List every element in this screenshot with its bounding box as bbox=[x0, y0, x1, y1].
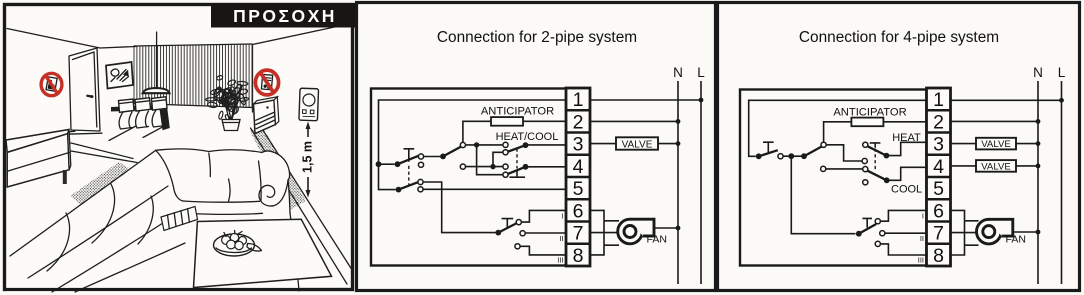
wall heater unit bbox=[254, 97, 279, 134]
HEAT/COOL upper pivot bbox=[523, 142, 529, 148]
wire resistor to terminal 2 bbox=[523, 120, 566, 122]
wire fan to N bbox=[654, 226, 680, 231]
svg-text:5: 5 bbox=[573, 178, 584, 200]
thermostat switch S1 lower lever bbox=[399, 182, 419, 189]
wire terminal 6 to fan bbox=[590, 210, 619, 220]
net N line bbox=[677, 81, 679, 284]
svg-text:I: I bbox=[561, 212, 563, 221]
potted plant bbox=[206, 75, 249, 131]
label L bbox=[1058, 65, 1066, 80]
coffee table bbox=[194, 219, 332, 287]
wire fan selector feed bbox=[791, 156, 855, 234]
wire terminal 1 to L bbox=[590, 98, 703, 103]
contact S1 lower a bbox=[418, 179, 423, 184]
contact S2 a bbox=[821, 142, 826, 147]
svg-text:VALVE: VALVE bbox=[981, 139, 1011, 150]
fan selector actuator T bbox=[502, 219, 514, 228]
contact speed I bbox=[516, 220, 521, 225]
wire S1 contact to S2 pivot bbox=[781, 155, 805, 157]
thermostat switch S1 upper pole pivot bbox=[395, 161, 401, 167]
svg-text:ΠΡΟΣΟΧΗ: ΠΡΟΣΟΧΗ bbox=[233, 6, 337, 26]
heat/cool mechanical link dashed bbox=[874, 149, 876, 172]
wire branch to cool contact bbox=[477, 145, 503, 175]
wire resistor to terminal 2 bbox=[883, 121, 926, 123]
contact S1 upper a bbox=[418, 154, 423, 159]
svg-text:ANTICIPATOR: ANTICIPATOR bbox=[481, 106, 554, 118]
svg-text:2: 2 bbox=[933, 111, 944, 133]
svg-text:8: 8 bbox=[933, 245, 944, 267]
dining table bbox=[111, 105, 170, 131]
left panel frame redraw bbox=[5, 5, 353, 290]
wire speed I to terminal 6 bbox=[878, 210, 927, 221]
wire fan bracket vertical bbox=[964, 221, 966, 245]
label speed II bbox=[559, 234, 563, 243]
svg-text:VALVE: VALVE bbox=[622, 139, 653, 150]
HEAT/COOL selector contacts bbox=[503, 142, 508, 177]
resistor ANTICIPATOR bbox=[833, 106, 906, 126]
right wall base lines bbox=[251, 124, 352, 284]
thermostat switch S1 lever bbox=[759, 150, 778, 156]
wire speed II to terminal 7 bbox=[523, 232, 566, 234]
wire terminal 2 to N bbox=[590, 119, 680, 124]
thermostat on wall bbox=[299, 88, 319, 121]
contact S2 b bbox=[460, 164, 465, 169]
heat switch contacts bbox=[862, 142, 868, 163]
wire terminal 3 to valve 1 bbox=[951, 143, 977, 145]
prohibition sign right wall bbox=[255, 70, 278, 95]
thermostat enclosure box (2-pipe) bbox=[371, 89, 567, 266]
fan selector pivot bbox=[856, 231, 862, 237]
label speed III bbox=[557, 256, 563, 265]
label speed I bbox=[922, 212, 924, 221]
thermostat enclosure box (4-pipe) bbox=[740, 90, 927, 266]
wire terminal 6 to fan bbox=[951, 210, 979, 220]
label L bbox=[697, 65, 705, 80]
HEAT/COOL mechanical link dashed bbox=[516, 149, 518, 169]
label speed III bbox=[918, 256, 924, 265]
cool switch pivot bbox=[884, 177, 890, 183]
svg-text:I: I bbox=[922, 212, 924, 221]
mechanical link dashed S1 bbox=[408, 166, 410, 185]
fan selector lever bbox=[859, 224, 876, 234]
net L line bbox=[1061, 81, 1063, 284]
wire to terminal 4 bbox=[526, 166, 567, 168]
wire terminal1 feed to switch common bbox=[379, 100, 567, 190]
svg-text:3: 3 bbox=[933, 134, 944, 156]
wire fan bracket vertical bbox=[603, 221, 605, 245]
svg-text:4: 4 bbox=[933, 156, 944, 178]
svg-text:7: 7 bbox=[573, 223, 584, 245]
resistor ANTICIPATOR bbox=[481, 106, 554, 126]
svg-text:1,5 m: 1,5 m bbox=[301, 141, 315, 173]
contact S1 upper b bbox=[418, 162, 423, 167]
wire speed I to terminal 6 bbox=[519, 210, 566, 222]
wire terminal 7 to fan bbox=[590, 232, 618, 234]
contact S2 a bbox=[460, 142, 465, 147]
wire stub to upper pole bbox=[379, 163, 395, 165]
sofa corner ottoman bbox=[161, 207, 198, 231]
svg-text:N: N bbox=[1033, 65, 1043, 80]
svg-text:8: 8 bbox=[573, 245, 584, 267]
bimetal actuator T of S1 bbox=[763, 142, 774, 152]
heat switch pivot bbox=[884, 153, 890, 159]
carpet stipple band behind sofa bbox=[70, 162, 135, 207]
contact speed II bbox=[880, 231, 885, 236]
label HEAT bbox=[892, 132, 921, 144]
heat switch lever bbox=[867, 146, 886, 155]
dimension arrow 1.5 m bbox=[301, 122, 315, 198]
svg-text:II: II bbox=[559, 234, 563, 243]
svg-text:Connection for 4-pipe system: Connection for 4-pipe system bbox=[799, 29, 999, 46]
fan selector pivot bbox=[495, 230, 501, 236]
svg-text:FAN: FAN bbox=[647, 234, 667, 246]
left panel frame bbox=[5, 5, 353, 290]
heat/cool actuator T bbox=[870, 143, 881, 148]
anticipator switch S2 lever bbox=[443, 147, 461, 157]
node junction heat row bbox=[474, 142, 479, 147]
svg-text:L: L bbox=[1058, 65, 1066, 80]
floor edge lines behind sofa bbox=[71, 143, 137, 163]
terminal strip 1-8 bbox=[566, 88, 590, 267]
node junction fan tap bbox=[788, 153, 794, 159]
thermostat switch S1 upper lever bbox=[398, 156, 419, 164]
door bbox=[66, 48, 102, 134]
wire S1 lower contact 1 to fan selector bbox=[421, 182, 497, 233]
wire net row2 bbox=[463, 166, 503, 168]
vertical blinds bbox=[134, 44, 252, 108]
terminal strip 1-8 bbox=[927, 88, 951, 267]
valve VALVE cool bbox=[976, 160, 1016, 172]
wire net heat row bbox=[463, 144, 503, 146]
cool switch contacts bbox=[863, 167, 868, 185]
cool switch lever bbox=[867, 171, 886, 181]
svg-text:4: 4 bbox=[573, 156, 584, 178]
wire speed III to terminal 8 bbox=[518, 246, 567, 255]
svg-text:1: 1 bbox=[933, 89, 944, 111]
svg-text:VALVE: VALVE bbox=[981, 162, 1011, 173]
contact S1 lower b bbox=[418, 187, 423, 192]
anticipator switch S2 lever bbox=[804, 146, 822, 156]
wire S2 contact a to heat contact b bbox=[824, 145, 863, 161]
thermostat switch S1 lower pole pivot bbox=[396, 187, 402, 193]
contact speed III bbox=[875, 241, 880, 246]
pendant lamp bbox=[143, 32, 170, 93]
svg-text:6: 6 bbox=[933, 200, 944, 222]
wire branch row2 up bbox=[493, 152, 503, 166]
wire to terminal 3 bbox=[526, 144, 567, 146]
svg-text:5: 5 bbox=[933, 178, 944, 200]
contact speed III bbox=[515, 244, 520, 249]
svg-text:2: 2 bbox=[573, 111, 584, 133]
prohibition sign left wall bbox=[41, 73, 62, 95]
wire terminal 1 to L bbox=[951, 98, 1064, 103]
label N bbox=[1033, 65, 1043, 80]
svg-text:3: 3 bbox=[573, 134, 584, 156]
fan selector lever bbox=[498, 223, 516, 232]
HEAT/COOL lower pivot bbox=[523, 164, 529, 170]
anticipator switch S2 pivot bbox=[440, 154, 446, 160]
svg-text:1: 1 bbox=[573, 89, 584, 111]
dining chairs bbox=[109, 97, 168, 141]
wire anticipator branch bbox=[463, 121, 491, 143]
wire valve 1 to N bbox=[1016, 141, 1040, 146]
svg-text:6: 6 bbox=[573, 200, 584, 222]
valve VALVE heat bbox=[976, 138, 1016, 150]
wire terminal 8 to fan bbox=[951, 245, 979, 255]
HEAT/COOL lower lever bbox=[508, 167, 526, 174]
wire S2 contact b to cool contact a bbox=[823, 168, 863, 170]
wire terminal 8 to fan bbox=[590, 245, 619, 255]
wire heat to terminal 3 bbox=[886, 142, 926, 155]
svg-text:ANTICIPATOR: ANTICIPATOR bbox=[833, 106, 906, 118]
node junction on feed bbox=[376, 161, 382, 167]
sofa sectional bbox=[7, 149, 300, 293]
wire valve to N bbox=[658, 141, 680, 146]
svg-text:Connection for 2-pipe system: Connection for 2-pipe system bbox=[437, 29, 637, 46]
ceiling and wall edges bbox=[7, 24, 351, 113]
wire terminal 3 to valve bbox=[590, 143, 616, 145]
svg-text:II: II bbox=[920, 234, 924, 243]
wire terminal 4 to valve 2 bbox=[951, 165, 977, 167]
middle title bbox=[437, 29, 637, 46]
contact speed I bbox=[875, 219, 880, 224]
wire terminal 7 to fan bbox=[951, 232, 978, 234]
caution banner bbox=[211, 3, 357, 28]
left wall floor edge bbox=[69, 130, 75, 133]
svg-text:III: III bbox=[918, 256, 924, 265]
HEAT/COOL upper lever bbox=[508, 145, 526, 152]
fruit plate bbox=[214, 231, 262, 257]
fan motor FAN bbox=[977, 219, 1026, 245]
wire speed III to terminal 8 bbox=[878, 244, 927, 255]
wire terminal 2 to N bbox=[951, 119, 1041, 124]
node junction row2 bbox=[490, 164, 495, 169]
wire fan to N bbox=[1013, 230, 1041, 235]
right panel frame bbox=[718, 3, 1080, 291]
picture frame bbox=[106, 62, 133, 89]
label speed I bbox=[561, 212, 563, 221]
net N line bbox=[1037, 81, 1039, 284]
svg-text:III: III bbox=[557, 256, 563, 265]
thermostat switch S1 pivot bbox=[756, 153, 762, 159]
net L line bbox=[700, 81, 702, 284]
right title bbox=[799, 29, 999, 46]
wire terminal1 feed to switch common bbox=[749, 100, 927, 156]
wire cool to terminal 4 bbox=[887, 167, 927, 180]
stipple along right wall bbox=[250, 126, 306, 210]
label COOL bbox=[891, 183, 922, 195]
sideboard cabinet bbox=[6, 130, 71, 188]
label N bbox=[673, 65, 683, 80]
bimetal actuator T of S1 bbox=[404, 149, 415, 162]
wire speed II to terminal 7 bbox=[882, 232, 926, 234]
anticipator switch S2 pivot bbox=[801, 153, 807, 159]
svg-text:N: N bbox=[673, 65, 683, 80]
svg-text:FAN: FAN bbox=[1006, 234, 1026, 246]
contact speed II bbox=[520, 231, 525, 236]
middle panel frame bbox=[357, 3, 716, 291]
fan motor FAN bbox=[618, 219, 667, 245]
svg-text:HEAT/COOL: HEAT/COOL bbox=[496, 131, 559, 143]
svg-text:L: L bbox=[697, 65, 705, 80]
svg-text:COOL: COOL bbox=[891, 183, 922, 195]
contact S2 b bbox=[821, 166, 826, 171]
wire valve 2 to N bbox=[1016, 164, 1040, 169]
label speed II bbox=[920, 234, 924, 243]
wire S1 upper contact to S2 pivot bbox=[421, 156, 443, 158]
wire S1 lower contact 2 to terminal 5 bbox=[421, 188, 567, 190]
svg-text:7: 7 bbox=[933, 223, 944, 245]
wire anticipator branch bbox=[824, 122, 852, 143]
HEAT/COOL actuator T bbox=[510, 170, 526, 178]
HEAT/COOL selector label bbox=[496, 131, 559, 143]
fan selector actuator T bbox=[862, 218, 872, 227]
valve VALVE bbox=[616, 137, 658, 150]
contact S1 bbox=[778, 154, 783, 159]
